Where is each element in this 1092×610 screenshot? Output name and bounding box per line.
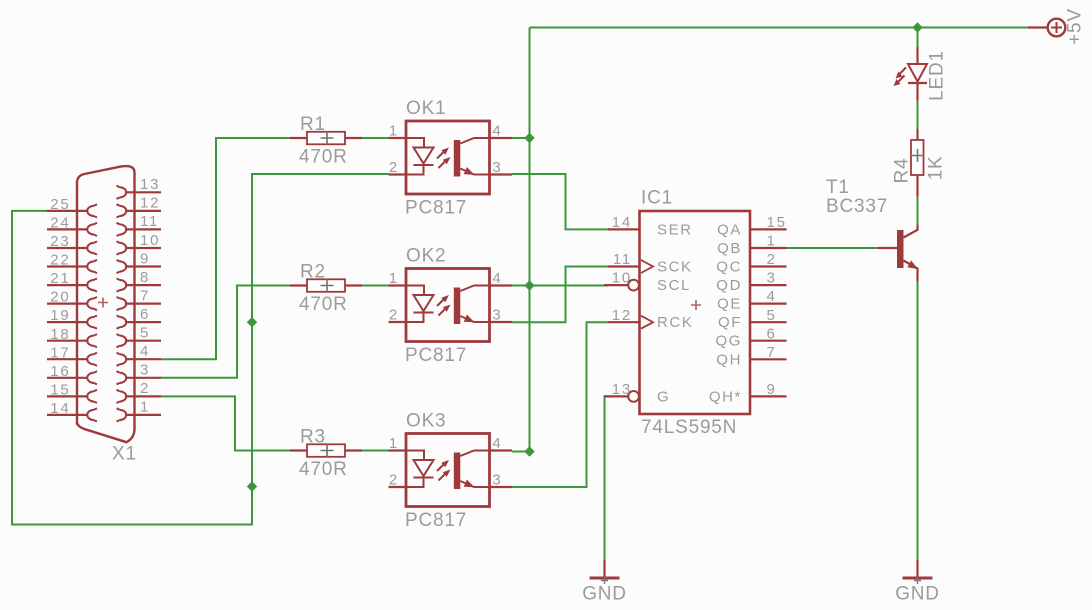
- connector X1 pin 25: [47, 196, 97, 218]
- svg-text:1: 1: [767, 233, 777, 250]
- wire OK2 pin4 to IC1 SCL: [512, 285, 608, 287]
- wire R1 to OK1 pin1: [362, 137, 389, 139]
- svg-text:10: 10: [612, 270, 632, 287]
- svg-text:11: 11: [140, 213, 159, 230]
- connector X1 pin 16: [47, 363, 97, 385]
- svg-text:BC337: BC337: [826, 196, 888, 217]
- svg-text:470R: 470R: [299, 294, 348, 315]
- svg-text:470R: 470R: [299, 147, 348, 168]
- svg-text:12: 12: [140, 195, 160, 212]
- connector X1 pin 13: [117, 176, 162, 199]
- optocoupler OK2 (PC817): [389, 246, 513, 367]
- svg-text:OK1: OK1: [406, 98, 446, 119]
- IC1 pin 11 (SCK): [608, 251, 693, 275]
- connector X1 pin 17: [47, 344, 97, 365]
- connector X1 pin 21: [47, 270, 97, 291]
- svg-text:R2: R2: [300, 261, 326, 282]
- svg-text:QC: QC: [716, 259, 742, 276]
- connector X1 pin 24: [47, 215, 97, 237]
- wire +5V top rail: [530, 27, 1029, 29]
- svg-text:25: 25: [50, 196, 70, 213]
- junction trunk at OK2 pin4: [524, 280, 534, 290]
- wire IC1 G to ground: [605, 396, 609, 560]
- junction at +5V rail and LED1 branch: [912, 22, 922, 32]
- svg-text:20: 20: [50, 289, 70, 306]
- wire R2 to OK2 pin1: [362, 285, 389, 287]
- connector X1 pin 3: [117, 362, 162, 385]
- svg-text:SER: SER: [657, 221, 693, 238]
- IC1 pin 5 (QF): [718, 307, 787, 331]
- ground symbol GND (T1 emitter): [895, 560, 940, 605]
- connector X1 body: [77, 166, 135, 442]
- wire OK1 pin3 to IC1 SER: [512, 174, 608, 229]
- svg-text:LED1: LED1: [927, 50, 948, 101]
- connector X1 pin 7: [117, 287, 162, 310]
- svg-text:GND: GND: [895, 584, 940, 605]
- svg-text:3: 3: [767, 270, 777, 287]
- svg-text:15: 15: [50, 382, 70, 399]
- wire OK3 pin3 to IC1 RCK: [512, 322, 608, 487]
- wire OK2 pin3 to IC1 SCK: [512, 267, 608, 323]
- svg-text:16: 16: [50, 363, 70, 380]
- svg-text:19: 19: [50, 307, 70, 324]
- svg-text:GND: GND: [582, 584, 627, 605]
- connector X1 pin 6: [117, 306, 162, 329]
- svg-text:7: 7: [767, 344, 777, 361]
- connector X1 pin 23: [47, 233, 97, 254]
- svg-text:11: 11: [613, 251, 632, 268]
- optocoupler OK1 (PC817): [389, 98, 513, 219]
- connector X1 pin 14: [47, 400, 97, 422]
- LED LED1: [894, 47, 928, 101]
- connector X1 pin 5: [117, 325, 162, 348]
- IC1 pin 12 (RCK): [608, 307, 693, 331]
- wire OK3 pin4 to trunk: [512, 451, 530, 453]
- +5V supply symbol: [1028, 19, 1065, 37]
- connector X1 pin 12: [117, 195, 162, 218]
- IC1 pin 14 (SER): [608, 214, 693, 238]
- IC1 pin 9 (QH*): [709, 381, 787, 405]
- svg-text:9: 9: [140, 250, 150, 267]
- svg-text:2: 2: [767, 251, 777, 268]
- svg-text:1: 1: [140, 399, 150, 416]
- svg-text:24: 24: [50, 215, 70, 232]
- junction trunk at OK1 pin4: [524, 133, 534, 143]
- connector X1 pin 4: [117, 343, 162, 366]
- connector X1 pin 10: [117, 232, 162, 255]
- svg-text:6: 6: [140, 306, 150, 323]
- svg-text:4: 4: [140, 343, 150, 360]
- wire OK1 pin4 to trunk: [512, 137, 530, 139]
- svg-text:R3: R3: [300, 426, 326, 447]
- svg-text:T1: T1: [826, 177, 850, 198]
- svg-text:QF: QF: [718, 314, 742, 331]
- svg-text:QE: QE: [717, 296, 742, 313]
- svg-text:QA: QA: [717, 221, 742, 238]
- svg-text:13: 13: [612, 381, 632, 398]
- IC1 pin 4 (QE): [717, 288, 786, 312]
- svg-text:2: 2: [140, 380, 150, 397]
- svg-text:15: 15: [767, 214, 787, 231]
- IC1 pin 13 (G): [604, 381, 670, 405]
- junction cathode bus at OK2 pin2: [247, 317, 257, 327]
- resistor R3: [290, 426, 362, 480]
- IC1 pin 3 (QD): [716, 270, 786, 294]
- connector X1 pin 9: [117, 250, 162, 273]
- svg-text:SCK: SCK: [657, 259, 693, 276]
- resistor R2: [290, 261, 362, 315]
- svg-text:IC1: IC1: [641, 188, 673, 209]
- IC1 pin 2 (QC): [716, 251, 786, 275]
- svg-text:QH: QH: [716, 351, 742, 368]
- connector X1 pin 11: [117, 213, 162, 236]
- svg-text:OK3: OK3: [406, 411, 446, 432]
- svg-text:5: 5: [767, 307, 777, 324]
- svg-text:1K: 1K: [926, 156, 947, 181]
- svg-text:6: 6: [767, 325, 777, 342]
- IC1 pin 1 (QB): [717, 233, 786, 257]
- wire T1 emitter to ground: [917, 281, 919, 560]
- wire LED1 anode from rail: [917, 28, 919, 48]
- svg-text:3: 3: [140, 362, 150, 379]
- svg-text:QB: QB: [717, 240, 742, 257]
- svg-text:23: 23: [50, 233, 70, 250]
- svg-text:OK2: OK2: [406, 246, 446, 267]
- svg-text:14: 14: [612, 214, 632, 231]
- wire IC1 QB to T1 base: [787, 247, 879, 249]
- connector X1 pin 8: [117, 269, 162, 292]
- svg-text:QD: QD: [716, 277, 742, 294]
- IC1 pin 7 (QH): [716, 344, 786, 368]
- connector X1 pin 22: [47, 252, 97, 274]
- ground symbol GND (IC1 G): [582, 560, 627, 605]
- wire vertical trunk to optocoupler pin4 column: [529, 28, 531, 452]
- junction cathode bus at OK3 pin2: [247, 481, 257, 491]
- svg-text:QH*: QH*: [709, 388, 742, 405]
- IC1 pin 6 (QG): [715, 325, 786, 349]
- svg-text:12: 12: [612, 307, 632, 324]
- svg-text:14: 14: [50, 400, 70, 417]
- IC1 pin 15 (QA): [717, 214, 787, 238]
- svg-text:RCK: RCK: [657, 314, 693, 331]
- resistor R1: [290, 114, 362, 168]
- wire R3 to OK3 pin1: [362, 450, 389, 452]
- svg-text:SCL: SCL: [657, 277, 691, 294]
- wire X1 pin25 to optocoupler cathode bus: [12, 174, 389, 525]
- svg-text:74LS595N: 74LS595N: [641, 417, 737, 438]
- svg-text:7: 7: [140, 287, 150, 304]
- IC U1 74LS595N body: [640, 211, 751, 414]
- svg-text:R4: R4: [892, 158, 913, 184]
- connector X1 pin 20: [47, 289, 97, 310]
- wire LED1 cathode to R4: [917, 100, 919, 129]
- svg-text:+5V: +5V: [1065, 8, 1086, 45]
- svg-text:470R: 470R: [299, 459, 348, 480]
- svg-text:5: 5: [140, 325, 150, 342]
- connector X1 pin 19: [47, 307, 97, 328]
- connector X1 origin cross: [98, 298, 108, 308]
- connector X1 pin 2: [117, 380, 162, 403]
- svg-text:4: 4: [767, 288, 777, 305]
- wire X1 pin4 to R1: [161, 138, 290, 359]
- optocoupler OK3 (PC817): [389, 411, 513, 532]
- connector X1 pin 15: [47, 382, 97, 404]
- wire X1 pin2 to R3: [161, 396, 290, 450]
- svg-text:X1: X1: [112, 444, 137, 465]
- junction trunk at OK3 pin4: [524, 446, 534, 456]
- svg-text:17: 17: [50, 344, 70, 361]
- svg-text:22: 22: [50, 252, 70, 269]
- connector X1 pin 18: [47, 326, 97, 348]
- svg-text:18: 18: [50, 326, 70, 343]
- resistor R4: [911, 129, 924, 197]
- IC1 origin cross: [691, 300, 701, 310]
- svg-text:8: 8: [140, 269, 150, 286]
- IC1 pin 10 (SCL): [604, 270, 691, 294]
- transistor T1 BC337: [878, 225, 918, 282]
- wire X1 pin3 to R2: [161, 286, 290, 378]
- svg-text:G: G: [657, 388, 670, 405]
- wire R4 to T1 collector: [917, 196, 919, 225]
- svg-text:QG: QG: [715, 333, 742, 350]
- svg-text:9: 9: [767, 381, 777, 398]
- connector X1 pin 1: [117, 399, 162, 422]
- svg-text:13: 13: [140, 176, 160, 193]
- svg-text:21: 21: [50, 270, 70, 287]
- svg-text:10: 10: [140, 232, 160, 249]
- svg-text:R1: R1: [300, 114, 326, 135]
